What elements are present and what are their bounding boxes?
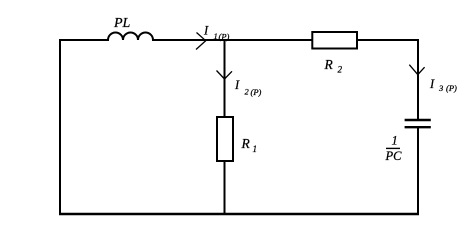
svg-text:(P): (P) [446,83,457,93]
svg-text:3: 3 [438,83,443,93]
svg-text:1: 1 [392,134,398,148]
svg-text:R: R [324,57,334,72]
svg-text:I: I [429,77,435,91]
svg-text:R: R [241,136,251,151]
svg-text:PL: PL [113,16,131,31]
svg-text:(P): (P) [219,32,230,42]
svg-text:2: 2 [245,87,250,97]
svg-text:2: 2 [338,65,343,75]
svg-text:I: I [203,24,209,38]
svg-text:(P): (P) [251,87,262,97]
svg-text:I: I [234,78,240,92]
svg-text:1: 1 [253,144,258,154]
svg-text:1: 1 [214,31,218,41]
svg-text:PC: PC [385,149,403,163]
